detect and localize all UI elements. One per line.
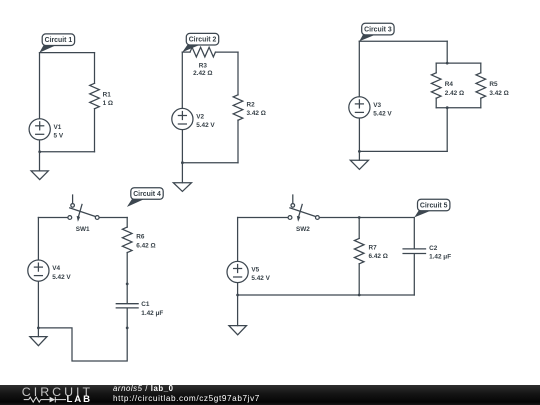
node circuit3 parallel bottom — [446, 106, 449, 109]
wire circuit4 left rail — [37, 218, 39, 260]
svg-text:1.42 μF: 1.42 μF — [429, 254, 451, 261]
wire V2 bottom — [181, 130, 183, 163]
wire V1 bottom — [39, 140, 41, 151]
svg-text:1 Ω: 1 Ω — [103, 100, 113, 107]
wire V4 bottom — [37, 282, 39, 328]
svg-text:5.42 V: 5.42 V — [196, 122, 215, 129]
footer title text — [113, 385, 174, 393]
resistor R3 — [190, 47, 215, 77]
node circuit5 ground junction — [236, 294, 239, 297]
resistor R6 — [122, 227, 155, 252]
node circuit2 ground junction — [181, 161, 184, 164]
svg-text:2.42 Ω: 2.42 Ω — [445, 90, 464, 97]
svg-text:V3: V3 — [373, 102, 381, 109]
svg-text:5.42 V: 5.42 V — [373, 111, 392, 118]
wire circuit3 top rail — [359, 40, 447, 42]
svg-text:R2: R2 — [247, 101, 256, 108]
wire circuit5 bottom rail — [238, 294, 415, 296]
svg-text:5 V: 5 V — [54, 133, 64, 140]
svg-text:R4: R4 — [445, 81, 454, 88]
wire circuit3 bottom rail — [359, 150, 447, 152]
wire V5 bottom — [237, 283, 239, 295]
svg-text:SW2: SW2 — [296, 226, 310, 233]
svg-text:6.42 Ω: 6.42 Ω — [369, 253, 388, 260]
wire circuit3 parallel top bar — [436, 62, 481, 64]
wire circuit4 right rail upper — [126, 218, 128, 228]
capacitor C2 — [403, 218, 451, 296]
wire circuit4 top rail right — [99, 217, 127, 219]
ground circuit2 — [173, 163, 191, 192]
node circuit3 parallel top — [446, 62, 449, 65]
svg-text:C1: C1 — [141, 301, 150, 308]
footer bar — [0, 385, 540, 405]
voltage source V2 — [172, 108, 216, 129]
svg-text:LAB: LAB — [67, 394, 92, 405]
wire circuit3 left rail — [358, 41, 360, 96]
wire circuit4 bottom staircase — [38, 328, 127, 361]
svg-text:R1: R1 — [103, 91, 112, 98]
ground circuit1 — [31, 152, 48, 180]
ground circuit5 — [229, 295, 247, 335]
svg-text:5.42 V: 5.42 V — [52, 274, 71, 281]
wire circuit2 right rail upper — [237, 52, 239, 95]
wire circuit3 parallel bottom bar — [436, 107, 481, 109]
ground circuit3 — [350, 151, 368, 169]
wire circuit5 top rail left — [238, 217, 289, 219]
ground circuit4 — [30, 328, 47, 346]
label badge Circuit 4 — [127, 188, 163, 207]
svg-text:C2: C2 — [429, 245, 438, 252]
svg-text:V2: V2 — [196, 114, 204, 121]
wire circuit1 top rail — [40, 52, 95, 54]
node circuit1 ground junction — [38, 150, 41, 153]
svg-text:SW1: SW1 — [76, 226, 90, 233]
wire circuit5 top rail right — [319, 217, 414, 219]
wire circuit3 top drop — [446, 41, 448, 63]
svg-text:Circuit 2: Circuit 2 — [189, 37, 217, 44]
svg-text:5.42 V: 5.42 V — [251, 275, 270, 282]
wire circuit2 top-right segment — [216, 51, 239, 53]
svg-text:6.42 Ω: 6.42 Ω — [136, 242, 155, 249]
resistor R1 — [90, 53, 113, 152]
svg-text:Circuit 1: Circuit 1 — [45, 37, 73, 44]
wire V3 bottom — [358, 118, 360, 151]
voltage source V3 — [349, 97, 393, 118]
wire circuit1 left rail — [39, 53, 41, 119]
voltage source V1 — [29, 119, 64, 140]
svg-text:Circuit 4: Circuit 4 — [133, 191, 161, 198]
node circuit4 C1 bottom junction — [126, 327, 129, 330]
wire circuit5 left rail — [237, 218, 239, 262]
svg-text:Circuit 3: Circuit 3 — [364, 27, 392, 34]
svg-text:R6: R6 — [136, 234, 145, 241]
wire circuit2 bottom rail — [182, 162, 238, 164]
svg-text:V1: V1 — [54, 124, 62, 131]
wire circuit2 top-left segment — [182, 51, 190, 53]
node circuit4 ground junction — [37, 327, 40, 330]
switch SW2 — [288, 195, 319, 233]
voltage source V4 — [28, 260, 72, 281]
wire circuit4 mid rail — [126, 253, 128, 304]
svg-text:V5: V5 — [251, 267, 259, 274]
resistor R4 — [431, 63, 464, 108]
wire circuit2 left rail — [181, 52, 183, 108]
wire circuit4 top rail left — [38, 217, 68, 219]
svg-text:Circuit 5: Circuit 5 — [420, 203, 448, 210]
CircuitLab logo — [0, 385, 110, 405]
label badge Circuit 3 — [359, 23, 394, 41]
svg-text:R5: R5 — [489, 81, 498, 88]
wire circuit3 bottom drop — [446, 108, 448, 152]
label badge Circuit 2 — [182, 33, 218, 52]
switch SW1 — [68, 195, 99, 233]
label badge Circuit 5 — [414, 199, 450, 217]
svg-text:R3: R3 — [199, 63, 208, 70]
svg-text:2.42 Ω: 2.42 Ω — [193, 70, 212, 77]
footer url text — [113, 395, 260, 403]
capacitor C1 — [116, 301, 163, 328]
resistor R5 — [476, 63, 509, 108]
resistor R2 — [233, 95, 266, 163]
svg-text:1.42 μF: 1.42 μF — [141, 310, 163, 317]
svg-text:V4: V4 — [52, 265, 60, 272]
svg-text:3.42 Ω: 3.42 Ω — [489, 90, 508, 97]
node circuit5 R7 top junction — [358, 216, 361, 219]
node circuit4 mid junction — [126, 283, 129, 286]
node circuit3 ground junction — [358, 150, 361, 153]
node circuit5 R7 bottom junction — [358, 294, 361, 297]
wire circuit1 bottom rail — [40, 151, 95, 153]
svg-text:3.42 Ω: 3.42 Ω — [247, 110, 266, 117]
voltage source V5 — [227, 261, 271, 282]
resistor R7 — [354, 218, 387, 296]
label badge Circuit 1 — [39, 34, 74, 53]
svg-text:R7: R7 — [369, 244, 378, 251]
